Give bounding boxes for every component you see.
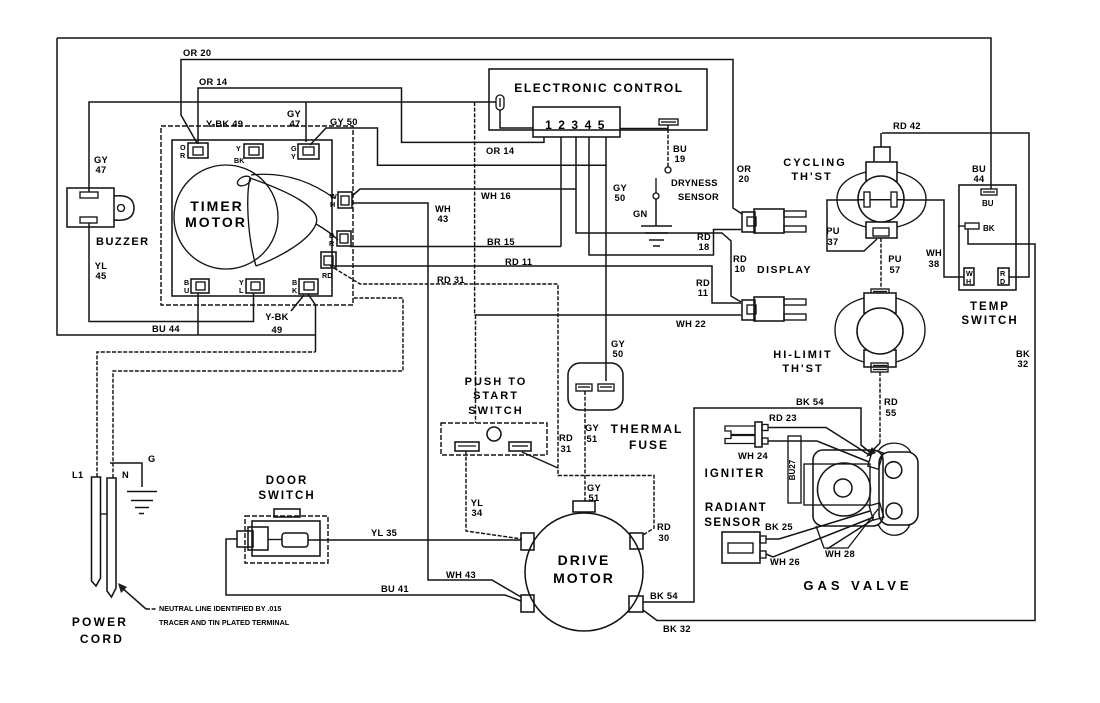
svg-text:POWER: POWER bbox=[72, 615, 128, 629]
wire BR15 bbox=[350, 246, 561, 248]
svg-text:SWITCH: SWITCH bbox=[258, 490, 315, 502]
ground GN bbox=[641, 225, 672, 227]
svg-text:DRIVE: DRIVE bbox=[558, 552, 611, 568]
display connector upper bbox=[742, 209, 806, 233]
svg-text:NEUTRAL LINE IDENTIFIED BY .01: NEUTRAL LINE IDENTIFIED BY .015 bbox=[159, 604, 281, 613]
svg-text:11: 11 bbox=[698, 288, 708, 298]
wire RD55 bbox=[879, 372, 881, 443]
svg-text:D: D bbox=[1000, 277, 1005, 286]
svg-text:WH 24: WH 24 bbox=[738, 451, 768, 461]
wire YL34 bbox=[466, 451, 522, 539]
svg-text:55: 55 bbox=[886, 408, 897, 418]
svg-text:45: 45 bbox=[96, 271, 107, 281]
wire YL35 bbox=[308, 539, 521, 541]
wire BU44 left riser bbox=[57, 38, 316, 335]
svg-text:L1: L1 bbox=[72, 470, 83, 480]
svg-text:47: 47 bbox=[290, 119, 301, 129]
thermal fuse bbox=[568, 363, 683, 452]
svg-text:TRACER AND TIN PLATED TERMINAL: TRACER AND TIN PLATED TERMINAL bbox=[159, 618, 290, 627]
wire GN ground lead bbox=[655, 199, 657, 226]
svg-text:START: START bbox=[473, 390, 519, 402]
svg-text:MOTOR: MOTOR bbox=[553, 570, 615, 586]
svg-text:DOOR: DOOR bbox=[266, 475, 309, 487]
timer terminal G-Y bbox=[291, 144, 319, 161]
BU27 loop bbox=[788, 436, 801, 503]
svg-text:G: G bbox=[148, 454, 156, 464]
wire GY50 pin5 stub bbox=[605, 137, 607, 165]
svg-text:SENSOR: SENSOR bbox=[678, 192, 719, 202]
svg-text:44: 44 bbox=[974, 174, 985, 184]
push to start switch bbox=[441, 376, 547, 455]
svg-text:51: 51 bbox=[587, 434, 598, 444]
svg-text:YL: YL bbox=[471, 498, 484, 508]
wire GY51 bbox=[584, 391, 586, 502]
timer terminal YL bbox=[239, 278, 264, 295]
svg-text:PUSH TO: PUSH TO bbox=[465, 376, 528, 388]
svg-text:L: L bbox=[239, 286, 244, 295]
svg-text:GN: GN bbox=[633, 209, 648, 219]
svg-text:BK 32: BK 32 bbox=[663, 624, 691, 634]
wire node BK timer diagonal left to Y-BK49 label bbox=[291, 295, 304, 311]
wire WH26 bbox=[766, 517, 874, 557]
svg-text:R: R bbox=[329, 239, 335, 248]
svg-text:RD: RD bbox=[559, 433, 573, 443]
svg-text:50: 50 bbox=[613, 349, 624, 359]
svg-text:SWITCH: SWITCH bbox=[961, 315, 1018, 327]
svg-text:K: K bbox=[292, 286, 298, 295]
svg-text:H: H bbox=[966, 277, 971, 286]
gas valve upper lug bbox=[868, 450, 883, 469]
timer terminal OR bbox=[180, 143, 208, 160]
hi-limit thermostat bbox=[773, 289, 925, 375]
svg-text:GY: GY bbox=[587, 483, 602, 493]
electronic control bbox=[489, 69, 707, 137]
svg-text:RD 42: RD 42 bbox=[893, 121, 921, 131]
svg-text:TIMER: TIMER bbox=[190, 198, 244, 214]
wire BK32 bbox=[643, 229, 1035, 621]
wire RD18 bbox=[589, 137, 741, 255]
svg-text:BR 15: BR 15 bbox=[487, 237, 515, 247]
svg-text:DISPLAY: DISPLAY bbox=[757, 264, 812, 276]
svg-text:SENSOR: SENSOR bbox=[704, 517, 762, 529]
svg-text:RD: RD bbox=[696, 278, 710, 288]
timer terminal RD bbox=[321, 252, 336, 280]
gas valve lower trapezoid bbox=[816, 509, 878, 548]
svg-text:12345: 12345 bbox=[545, 118, 611, 132]
svg-text:OR 14: OR 14 bbox=[199, 77, 228, 87]
svg-text:WH 26: WH 26 bbox=[770, 557, 800, 567]
svg-text:31: 31 bbox=[561, 444, 572, 454]
svg-text:OR: OR bbox=[737, 164, 752, 174]
svg-text:38: 38 bbox=[929, 259, 940, 269]
svg-text:BK: BK bbox=[234, 156, 245, 165]
svg-text:GY: GY bbox=[94, 155, 109, 165]
svg-text:U: U bbox=[184, 286, 189, 295]
wire WH16 bbox=[352, 189, 576, 196]
svg-text:BUZZER: BUZZER bbox=[96, 236, 150, 248]
svg-text:GY: GY bbox=[611, 339, 626, 349]
gas valve bbox=[788, 436, 918, 593]
svg-text:RD 23: RD 23 bbox=[769, 413, 797, 423]
svg-text:BU27: BU27 bbox=[788, 459, 797, 480]
dryness sensor bbox=[641, 129, 719, 246]
buzzer bbox=[67, 188, 150, 248]
svg-text:34: 34 bbox=[472, 508, 483, 518]
svg-text:20: 20 bbox=[739, 174, 750, 184]
wire GY47 drop to timer bbox=[305, 102, 307, 142]
svg-text:BK 54: BK 54 bbox=[796, 397, 824, 407]
wire PU37 loop bbox=[827, 200, 877, 251]
svg-text:BK 54: BK 54 bbox=[650, 591, 678, 601]
wire ground G lead bbox=[110, 463, 142, 487]
power cord prong L1 bbox=[92, 477, 101, 586]
svg-text:FUSE: FUSE bbox=[629, 438, 669, 452]
svg-text:47: 47 bbox=[96, 165, 107, 175]
svg-text:ELECTRONIC CONTROL: ELECTRONIC CONTROL bbox=[514, 81, 683, 95]
temp switch bbox=[958, 185, 1019, 327]
wire L1 bus bbox=[97, 352, 316, 477]
svg-text:PU: PU bbox=[826, 226, 840, 236]
timer terminal BK bbox=[292, 278, 318, 295]
control input element bbox=[496, 95, 504, 110]
svg-text:GY: GY bbox=[585, 423, 600, 433]
wire RD31 bbox=[334, 268, 654, 535]
wire RD31 push-to-start link bbox=[522, 452, 558, 468]
power cord bbox=[72, 454, 290, 646]
wire cycling top lead bbox=[880, 133, 882, 147]
svg-text:TH'ST: TH'ST bbox=[791, 171, 832, 183]
wire BU41 bbox=[226, 539, 521, 601]
wire RD23 bbox=[768, 428, 871, 457]
svg-text:CYCLING: CYCLING bbox=[783, 157, 847, 169]
svg-text:Y-BK: Y-BK bbox=[265, 312, 288, 322]
svg-text:GAS VALVE: GAS VALVE bbox=[803, 578, 912, 593]
svg-text:RD: RD bbox=[733, 254, 747, 264]
wire GY47 bbox=[89, 102, 496, 192]
svg-text:CORD: CORD bbox=[80, 632, 124, 646]
svg-text:RD 31: RD 31 bbox=[437, 275, 465, 285]
svg-text:BU: BU bbox=[982, 199, 994, 208]
svg-text:BK: BK bbox=[1016, 349, 1030, 359]
svg-text:43: 43 bbox=[438, 214, 449, 224]
timer terminal BR bbox=[329, 231, 351, 248]
wire BU44 top bus bbox=[57, 38, 991, 189]
svg-text:SWITCH: SWITCH bbox=[468, 405, 523, 417]
wire BU44 timer drop bbox=[197, 293, 199, 335]
svg-text:WH 16: WH 16 bbox=[481, 191, 511, 201]
wire PU57 bbox=[880, 238, 882, 289]
svg-text:IGNITER: IGNITER bbox=[705, 468, 766, 480]
svg-text:HI-LIMIT: HI-LIMIT bbox=[773, 349, 832, 361]
neutral note arrow bbox=[121, 587, 146, 609]
svg-text:WH: WH bbox=[926, 248, 942, 258]
wire WH24 bbox=[768, 441, 869, 462]
svg-text:RD 11: RD 11 bbox=[505, 257, 532, 267]
wire GY50 bbox=[310, 128, 606, 381]
svg-text:Y: Y bbox=[291, 152, 296, 161]
wire RD10 bbox=[576, 137, 741, 302]
wire N bus bbox=[113, 298, 403, 478]
svg-text:49: 49 bbox=[272, 325, 283, 335]
wire BK54 bbox=[643, 408, 872, 602]
svg-text:37: 37 bbox=[828, 237, 839, 247]
svg-text:WH: WH bbox=[435, 204, 451, 214]
timer terminal BU bbox=[184, 278, 209, 295]
timer cam teardrop left bbox=[248, 178, 256, 266]
wire WH38 bbox=[897, 200, 964, 277]
svg-text:RD: RD bbox=[884, 397, 898, 407]
timer motor circle bbox=[174, 165, 278, 269]
svg-text:YL 35: YL 35 bbox=[371, 528, 397, 538]
wire BU19 bbox=[667, 129, 669, 167]
timer cam teardrop right bbox=[250, 178, 317, 266]
svg-text:WH 43: WH 43 bbox=[446, 570, 476, 580]
svg-text:BU: BU bbox=[972, 164, 986, 174]
wire OR20 bbox=[181, 60, 742, 215]
svg-text:WH 22: WH 22 bbox=[676, 319, 706, 329]
wire RD11 bbox=[330, 266, 741, 303]
power cord prong N bbox=[107, 478, 116, 597]
wire node BK timer diagonal right bbox=[308, 294, 316, 352]
svg-text:OR 14: OR 14 bbox=[486, 146, 515, 156]
door switch bbox=[237, 475, 328, 563]
timer terminal WH bbox=[330, 192, 352, 209]
drive motor bbox=[521, 501, 643, 631]
svg-text:OR 20: OR 20 bbox=[183, 48, 211, 58]
svg-text:GY: GY bbox=[613, 183, 628, 193]
display connector lower bbox=[742, 297, 806, 321]
svg-text:YL: YL bbox=[95, 261, 108, 271]
svg-text:BU: BU bbox=[673, 144, 687, 154]
svg-text:N: N bbox=[122, 470, 129, 480]
igniter bbox=[705, 422, 871, 480]
svg-text:WH 28: WH 28 bbox=[825, 549, 855, 559]
wire WH28 bbox=[827, 519, 874, 549]
svg-text:TEMP: TEMP bbox=[970, 301, 1010, 313]
control terminal to dryness sensor bbox=[659, 119, 678, 125]
gas valve lower lug bbox=[869, 503, 884, 520]
svg-text:Y: Y bbox=[236, 144, 241, 153]
svg-text:BU 44: BU 44 bbox=[152, 324, 180, 334]
cycling thermostat bbox=[783, 147, 926, 238]
timer terminal Y-BK bbox=[234, 144, 263, 165]
svg-text:RD: RD bbox=[657, 522, 671, 532]
timer inner box bbox=[172, 140, 332, 296]
timer cam link to BR bbox=[316, 224, 338, 240]
wire WH22 bbox=[475, 314, 741, 316]
timer motor assembly bbox=[161, 126, 353, 305]
svg-text:DRYNESS: DRYNESS bbox=[671, 178, 718, 188]
svg-text:Y-BK 49: Y-BK 49 bbox=[206, 119, 243, 129]
svg-text:BU 41: BU 41 bbox=[381, 584, 409, 594]
svg-text:R: R bbox=[180, 151, 186, 160]
svg-text:THERMAL: THERMAL bbox=[611, 422, 684, 436]
ground symbol power bbox=[127, 491, 157, 493]
svg-text:10: 10 bbox=[735, 264, 746, 274]
svg-text:50: 50 bbox=[615, 193, 626, 203]
svg-text:BK: BK bbox=[983, 224, 995, 233]
wire YL45 bbox=[89, 223, 254, 322]
svg-text:19: 19 bbox=[675, 154, 686, 164]
svg-text:57: 57 bbox=[890, 265, 901, 275]
svg-text:BK 25: BK 25 bbox=[765, 522, 793, 532]
svg-text:RD: RD bbox=[697, 232, 711, 242]
wire RD42 bbox=[882, 133, 1029, 277]
timer cam curve to WH bbox=[251, 174, 334, 198]
control connector 1-5 bbox=[533, 107, 620, 137]
wire WH43 bbox=[352, 203, 521, 597]
wire control pin2 BR15 riser bbox=[560, 137, 562, 247]
svg-text:GY 50: GY 50 bbox=[330, 117, 358, 127]
svg-text:32: 32 bbox=[1018, 359, 1029, 369]
wire drop to push-to-start switch bbox=[475, 315, 477, 423]
svg-text:GY: GY bbox=[287, 109, 302, 119]
svg-text:30: 30 bbox=[659, 533, 670, 543]
svg-text:TH'ST: TH'ST bbox=[782, 363, 823, 375]
wire junction drop from GY47 bus bbox=[474, 102, 476, 315]
timer cam ellipse bbox=[236, 174, 252, 188]
svg-text:RADIANT: RADIANT bbox=[705, 502, 767, 514]
svg-text:H: H bbox=[330, 200, 335, 209]
svg-text:RD: RD bbox=[322, 271, 332, 280]
wire BK25 bbox=[766, 511, 870, 539]
svg-text:MOTOR: MOTOR bbox=[185, 214, 247, 230]
wire OR14 bbox=[198, 88, 544, 144]
svg-text:PU: PU bbox=[888, 254, 902, 264]
radiant sensor bbox=[704, 502, 874, 563]
svg-text:51: 51 bbox=[589, 493, 600, 503]
timer outer dashed box bbox=[161, 126, 353, 305]
svg-text:18: 18 bbox=[699, 242, 710, 252]
wire RD55 arrow bbox=[873, 443, 880, 450]
